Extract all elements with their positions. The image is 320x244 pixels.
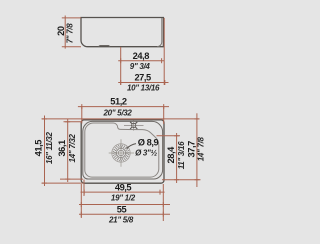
dim 41,5 vertical line	[44, 116, 46, 187]
dim 49,5 right tick	[159, 190, 161, 195]
svg-text:21" 5/8: 21" 5/8	[108, 216, 134, 225]
dim 28,4 vertical line	[176, 133, 178, 183]
extension 55 left	[80, 184, 82, 218]
dim 41,5 top tick	[42, 118, 47, 120]
dim 36,1 top extension	[64, 121, 83, 123]
svg-text:14" 7/32: 14" 7/32	[68, 134, 77, 163]
shared bottom extension (28,4 / 37,7)	[162, 179, 201, 181]
svg-text:49,5: 49,5	[115, 182, 132, 192]
extension line right of 27,5	[163, 18, 165, 85]
dim 37,7 bottom tick	[194, 179, 199, 181]
dim 27,5 left tick	[120, 80, 122, 85]
svg-text:Ø 3"½: Ø 3"½	[135, 149, 157, 158]
dim 55 metric right tick	[162, 202, 164, 207]
side view: sink profile outline	[81, 18, 163, 47]
dim 24,8 right tick	[161, 58, 163, 63]
tap hole marker crosshair	[124, 120, 144, 130]
svg-text:51,2: 51,2	[110, 96, 127, 106]
dim 27,5 right tick	[164, 80, 166, 85]
dim 36,1 top tick	[65, 121, 70, 123]
dim 20 top extension	[62, 17, 81, 19]
top view: outer rim rect	[81, 120, 164, 183]
drain ring inner circle	[116, 148, 125, 157]
drain hatched ring	[115, 147, 127, 159]
svg-text:9" 3/4: 9" 3/4	[130, 62, 151, 71]
svg-text:24,8: 24,8	[133, 51, 150, 61]
svg-text:37,7: 37,7	[186, 141, 196, 158]
dim 55 inch line	[79, 213, 170, 215]
dim 28,4 top extension	[157, 135, 181, 137]
dim 37,7 top tick	[194, 118, 199, 120]
shared top extension line (41,5 / 37,7)	[42, 118, 200, 120]
tap hole marker circle	[132, 123, 136, 127]
svg-text:27,5: 27,5	[134, 73, 151, 83]
svg-text:7" 7/8: 7" 7/8	[65, 23, 74, 44]
side view: drain bump on bottom	[99, 46, 111, 47]
svg-text:14" 7/8: 14" 7/8	[197, 136, 206, 161]
drain crosshair	[109, 139, 134, 166]
dim 28,4 top tick	[174, 135, 179, 137]
top view: bowl opening outline	[83, 121, 163, 179]
tap hole marker diagonal petals	[130, 122, 137, 129]
dim 36,1 bottom tick	[65, 178, 70, 180]
dim 51,2 line	[78, 106, 169, 108]
top view: bowl bottom outline with tap ledge dip	[85, 123, 159, 177]
extension 49,5 left	[83, 180, 85, 197]
dim 24,8 left tick	[120, 58, 122, 63]
svg-text:10" 13/16: 10" 13/16	[127, 84, 160, 93]
dim 37,7 vertical line	[196, 113, 198, 187]
svg-text:11" 3/16: 11" 3/16	[177, 141, 186, 169]
svg-text:19" 1/2: 19" 1/2	[111, 194, 136, 203]
dim 20 bottom extension	[62, 46, 81, 48]
dim 24,8 line	[118, 60, 164, 62]
dim 55 inch right tick	[162, 212, 164, 217]
dim 20 vertical line	[64, 16, 66, 49]
dim 49,5 line	[81, 191, 165, 193]
svg-text:20" 5/32: 20" 5/32	[102, 108, 132, 117]
svg-text:Ø 8,9: Ø 8,9	[138, 138, 159, 148]
dim 51,2 left tick	[81, 104, 83, 109]
svg-text:16" 11/32: 16" 11/32	[45, 132, 54, 164]
drain outer circle	[112, 144, 130, 162]
dim 51,2 right tick	[163, 104, 165, 109]
drain leader line	[127, 144, 137, 149]
svg-text:28,4: 28,4	[166, 146, 176, 164]
dim 41,5 bottom tick	[42, 182, 47, 184]
extension 51,2 left down to bowl	[81, 107, 83, 124]
dim 49,5 left tick	[83, 190, 85, 195]
dim 28,4 bottom tick	[174, 179, 179, 181]
extension 51,2 right down to bowl	[163, 107, 165, 124]
svg-text:36,1: 36,1	[57, 140, 67, 157]
svg-text:41,5: 41,5	[34, 140, 44, 157]
extension line left of 24,8/27,5	[120, 47, 122, 85]
extension 55/49,5 right	[162, 184, 164, 221]
dim 36,1 bottom extension	[60, 178, 83, 180]
dim 36,1 vertical line	[67, 119, 69, 182]
dim 55 metric left tick	[80, 202, 82, 207]
side view: inner right wall line	[157, 18, 162, 47]
svg-text:55: 55	[117, 205, 127, 215]
dim 41,5 bottom extension	[42, 182, 84, 184]
dim 55 metric line	[79, 204, 170, 206]
dim 55 inch left tick	[80, 212, 82, 217]
drain center circle	[118, 150, 123, 155]
dim 27,5 line	[118, 82, 168, 84]
